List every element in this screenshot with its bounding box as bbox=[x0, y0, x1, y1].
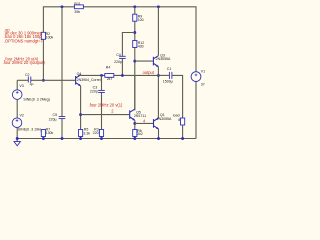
wire Q5 emitter down bbox=[134, 120, 136, 138]
wire x=61.6 vertical bbox=[61, 7, 63, 116]
svg-text:430: 430 bbox=[138, 44, 144, 48]
svg-text:C4: C4 bbox=[116, 53, 121, 57]
svg-text:.four 2MHz 20 v(1): .four 2MHz 20 v(1) bbox=[89, 103, 124, 108]
voltage source V1 bbox=[191, 72, 201, 82]
capacitor C2 bbox=[28, 77, 31, 83]
wire C1 horizontal bbox=[158, 74, 169, 76]
svg-text:8: 8 bbox=[178, 118, 180, 122]
resistor R2 bbox=[41, 32, 45, 39]
wire Q1 base bbox=[135, 122, 153, 124]
svg-text:220: 220 bbox=[93, 131, 99, 135]
wire load bottom bbox=[182, 125, 184, 138]
svg-text:R11: R11 bbox=[74, 2, 80, 6]
svg-text:SINE(0 .3 2Meg): SINE(0 .3 2Meg) bbox=[23, 98, 49, 102]
capacitor C4 bbox=[119, 56, 126, 58]
resistor R7 bbox=[41, 130, 45, 137]
svg-text:100: 100 bbox=[138, 18, 144, 22]
node rail junction R3 bbox=[100, 137, 103, 140]
svg-text:C1: C1 bbox=[167, 67, 172, 71]
voltage source V2 bbox=[12, 118, 22, 128]
svg-text:SINE(0 .3 19k): SINE(0 .3 19k) bbox=[18, 128, 41, 132]
node top-left junction bbox=[61, 5, 64, 8]
svg-text:130k: 130k bbox=[46, 131, 54, 135]
wire Q3 emitter to Q1 collector bbox=[157, 67, 159, 119]
wire Q4 emitter down bbox=[80, 86, 82, 139]
node Q4 emitter junction bbox=[79, 113, 82, 116]
wire Q1 emitter down bbox=[158, 129, 160, 139]
svg-text:load: load bbox=[173, 113, 180, 117]
resistor R6 bbox=[133, 130, 137, 137]
wire x=61.6 below C5 bbox=[61, 119, 63, 139]
node output junction bbox=[157, 74, 160, 77]
wire V1 bottom riser bbox=[195, 82, 197, 139]
wire C3 branch bbox=[101, 75, 103, 90]
svg-text:2k7: 2k7 bbox=[107, 77, 113, 81]
wire Q3 base bbox=[135, 60, 153, 62]
svg-text:.four 2MHz 20 I(output): .four 2MHz 20 I(output) bbox=[3, 60, 46, 65]
capacitor C1 bbox=[169, 72, 172, 79]
resistor R5 bbox=[79, 130, 83, 137]
svg-text:37: 37 bbox=[201, 83, 205, 87]
wire top rail left segment bbox=[43, 7, 74, 81]
svg-text:2N3055A: 2N3055A bbox=[156, 57, 171, 61]
svg-text:Q4: Q4 bbox=[77, 72, 82, 76]
wire R9/R12 vertical bbox=[134, 7, 136, 111]
node top-right junction bbox=[157, 5, 160, 8]
transistor Q1 bbox=[154, 118, 159, 129]
wire Q5 collector riser bbox=[134, 75, 136, 109]
svg-text:100k: 100k bbox=[46, 36, 54, 40]
wire V3-V2 bbox=[16, 99, 18, 118]
resistor R12 bbox=[133, 41, 137, 48]
node rail junction C5 bbox=[61, 137, 64, 140]
node rail junction V2 bbox=[16, 137, 19, 140]
capacitor C3 bbox=[98, 90, 105, 92]
resistor load bbox=[181, 118, 185, 125]
svg-text:2N3055A: 2N3055A bbox=[157, 117, 172, 121]
node top-mid junction bbox=[133, 5, 136, 8]
svg-text:1500µ: 1500µ bbox=[163, 80, 173, 84]
resistor R4 bbox=[105, 74, 114, 78]
node C4 junction bbox=[121, 74, 124, 77]
svg-text:V3: V3 bbox=[19, 84, 23, 88]
voltage source V3 bbox=[12, 90, 22, 100]
wire top rail right segment bbox=[83, 7, 196, 73]
svg-text:C2: C2 bbox=[25, 73, 30, 77]
svg-text:3.3k: 3.3k bbox=[83, 132, 90, 136]
svg-text:V1: V1 bbox=[201, 69, 205, 73]
wire C4 branch top bbox=[122, 33, 134, 56]
transistor Q5 bbox=[130, 109, 135, 120]
wire V3 top bbox=[16, 80, 18, 90]
wire Q5 base bbox=[81, 114, 130, 116]
transistor Q4 bbox=[76, 75, 81, 86]
svg-text:2k2: 2k2 bbox=[137, 132, 143, 136]
wire Q3 collector riser bbox=[157, 7, 159, 56]
wire R4 net bbox=[81, 74, 105, 76]
node Q5 emitter junction bbox=[133, 122, 136, 125]
svg-text:output: output bbox=[143, 70, 155, 75]
svg-text:220p: 220p bbox=[90, 90, 98, 94]
ground bbox=[14, 142, 20, 146]
svg-text:39k: 39k bbox=[74, 10, 80, 14]
svg-text:2N1711: 2N1711 bbox=[134, 114, 146, 118]
node R12 bottom junction bbox=[133, 60, 136, 63]
node C3 junction bbox=[100, 74, 103, 77]
svg-text:220p: 220p bbox=[114, 60, 122, 64]
capacitor C5 bbox=[59, 117, 66, 119]
svg-text:R4: R4 bbox=[106, 65, 111, 69]
svg-text:1µ: 1µ bbox=[29, 82, 33, 86]
node rail junction Q1 bbox=[157, 137, 160, 140]
node rail junction load bbox=[181, 137, 184, 140]
node rail junction R6 bbox=[133, 137, 136, 140]
resistor R3 bbox=[99, 130, 103, 137]
svg-text:220µ: 220µ bbox=[49, 117, 57, 121]
resistor R9 bbox=[133, 14, 137, 21]
svg-text:V2: V2 bbox=[20, 113, 24, 117]
transistor Q3 bbox=[153, 56, 158, 67]
wire C4 branch bottom bbox=[121, 59, 123, 76]
wire input horizontal bbox=[17, 79, 28, 81]
node rail junction R7 bbox=[42, 137, 45, 140]
wire bottom rail bbox=[17, 138, 196, 140]
svg-text:2N3904_Correl: 2N3904_Correl bbox=[77, 78, 101, 82]
node input junction bbox=[42, 79, 45, 82]
svg-text:.OPTIONS numdgt=7: .OPTIONS numdgt=7 bbox=[4, 38, 44, 43]
node C4 top junction bbox=[133, 31, 136, 34]
node rail junction R5 bbox=[79, 137, 82, 140]
resistor R11 bbox=[74, 5, 83, 9]
wire V2 bottom bbox=[16, 127, 18, 141]
